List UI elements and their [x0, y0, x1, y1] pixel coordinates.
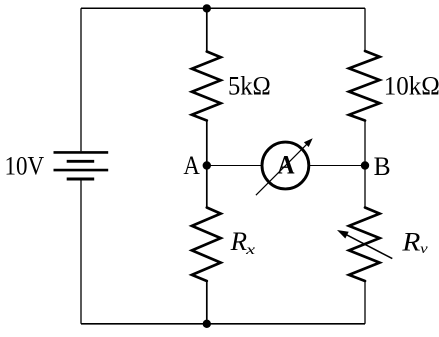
- wire: middle branch bottom (Rx to bottom rail): [206, 281, 208, 324]
- wire: bottom rail left segment: [81, 323, 207, 325]
- battery V1 (10V source): [54, 152, 109, 179]
- svg-text:5kΩ: 5kΩ: [228, 71, 271, 101]
- svg-text:v: v: [420, 242, 428, 257]
- value label Rv: [401, 227, 428, 257]
- wire: middle branch middle (5k to node A to Rx): [206, 121, 208, 208]
- wire: right branch bottom (Rv to bottom rail): [364, 281, 366, 324]
- svg-text:R: R: [401, 227, 420, 257]
- resistor R 10k (zigzag): [349, 51, 380, 121]
- svg-text:A: A: [183, 151, 200, 180]
- resistor R 5k (zigzag): [192, 52, 221, 121]
- wire: node A to ammeter: [207, 165, 262, 167]
- wire: top rail left segment: [81, 7, 207, 9]
- ammeter needle arrow: [256, 138, 313, 195]
- node A junction dot: [203, 161, 211, 169]
- svg-text:10kΩ: 10kΩ: [384, 71, 439, 101]
- ammeter M1 (circle): [262, 142, 309, 189]
- node B junction dot: [361, 161, 369, 169]
- wire: left branch upper (to battery): [80, 8, 82, 151]
- wire: right branch middle (10k to node B to Rv): [364, 121, 366, 208]
- wire: middle branch top (node to 5k resistor): [206, 8, 208, 52]
- potentiometer Rv (zigzag): [349, 208, 380, 282]
- svg-text:10V: 10V: [5, 150, 45, 180]
- wire: left branch lower (from battery): [80, 180, 82, 323]
- wire: bottom rail right segment: [207, 323, 365, 325]
- value label Rx: [230, 226, 257, 258]
- wire: ammeter to node B: [309, 165, 365, 167]
- junction dot top: [203, 4, 211, 12]
- resistor Rx (zigzag): [192, 208, 221, 282]
- svg-text:R: R: [230, 226, 247, 256]
- arrow across Rv (variable marker): [337, 230, 392, 259]
- junction dot bottom: [203, 320, 211, 328]
- wire: right branch top (to 10k resistor): [364, 8, 366, 52]
- svg-text:B: B: [374, 152, 391, 181]
- svg-text:x: x: [245, 243, 257, 258]
- wire: top rail right segment: [207, 7, 365, 9]
